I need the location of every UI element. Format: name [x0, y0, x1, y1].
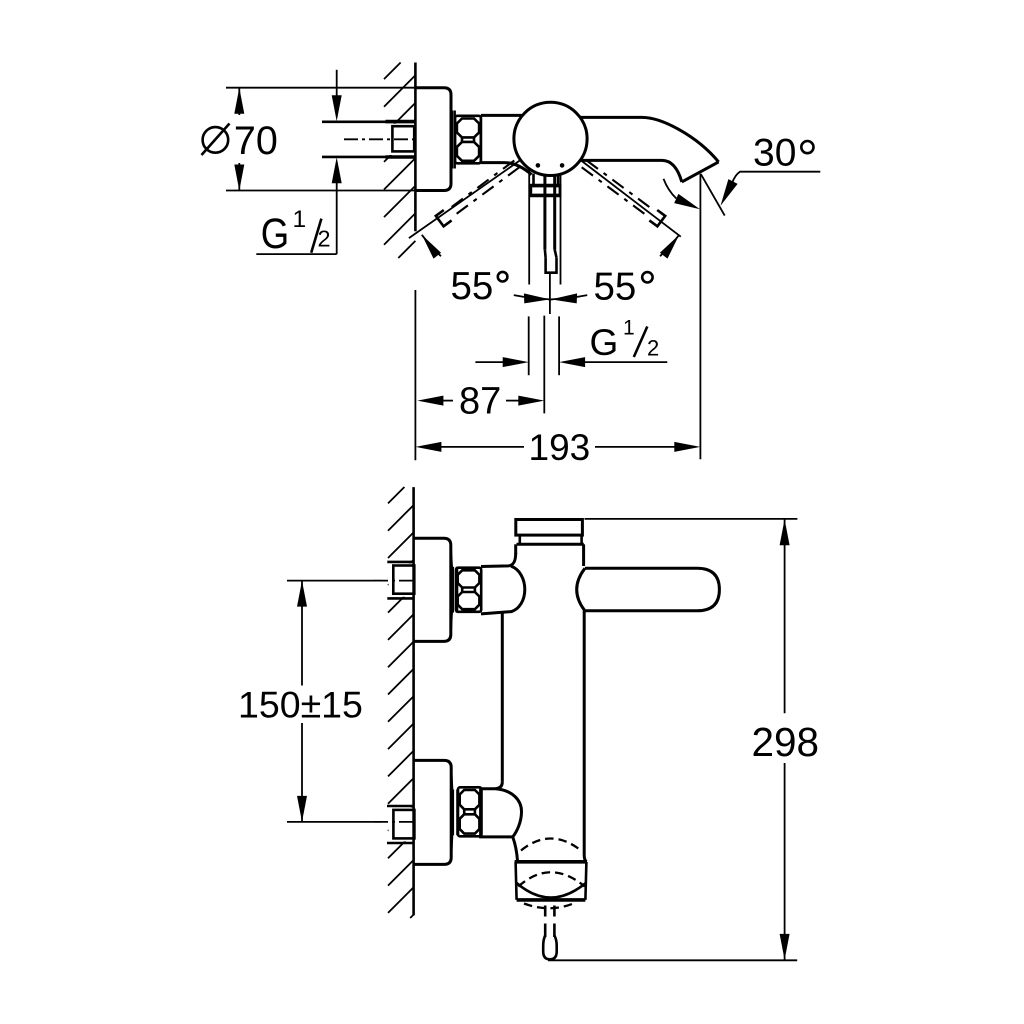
- svg-text:G: G: [261, 210, 289, 257]
- svg-text:2: 2: [647, 336, 659, 361]
- svg-text:30: 30: [753, 132, 796, 175]
- svg-text:70: 70: [234, 119, 278, 163]
- svg-text:55: 55: [451, 265, 494, 308]
- svg-text:2: 2: [318, 226, 331, 252]
- svg-text:1: 1: [623, 317, 635, 340]
- svg-text:87: 87: [459, 380, 501, 422]
- svg-text:193: 193: [529, 427, 591, 468]
- svg-text:G: G: [590, 322, 619, 363]
- svg-text:150±15: 150±15: [238, 684, 363, 726]
- svg-text:55: 55: [594, 265, 637, 308]
- svg-text:1: 1: [293, 206, 307, 233]
- svg-text:298: 298: [752, 719, 820, 765]
